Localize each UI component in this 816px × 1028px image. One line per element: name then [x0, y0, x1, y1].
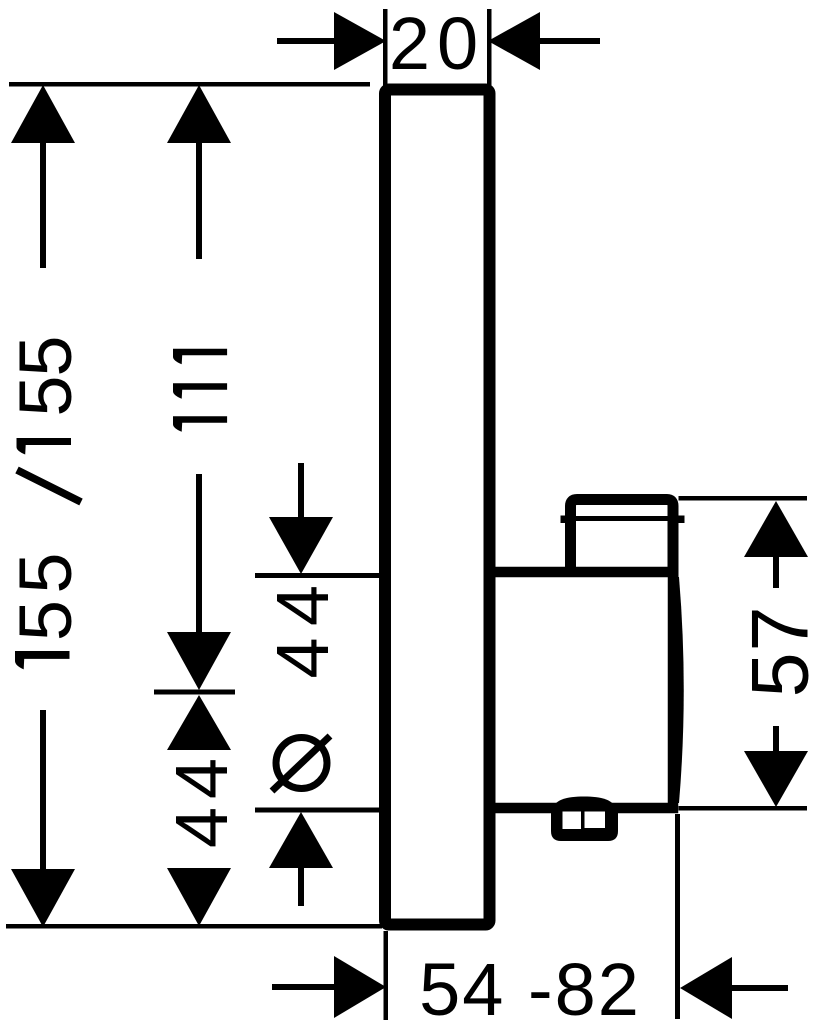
svg-text:7: 7: [736, 606, 816, 651]
extension line 57 top: [679, 496, 808, 501]
knob cap inner line: [576, 516, 668, 521]
tick knob bottom: [255, 808, 381, 813]
dim 20 left arrowhead: [334, 12, 386, 70]
knob body: [492, 572, 673, 808]
clip window right: [585, 812, 606, 829]
dim 44 lower bottom arrowhead: [167, 868, 231, 926]
dim 111 lower tail: [196, 474, 202, 638]
dim 155/155 text: digit 1 (custom): [15, 651, 70, 669]
bottom extension line (overall height datum): [6, 924, 382, 929]
dim d44 upper arrowhead: [269, 517, 333, 574]
knob cap right nub: [678, 516, 685, 524]
dim 54-82 right arrowhead: [680, 957, 732, 1019]
diameter symbol circle: [276, 738, 327, 789]
svg-text:5: 5: [4, 335, 87, 376]
tick at handle axis: [154, 690, 235, 695]
dim 155/155 bottom arrowhead: [11, 869, 75, 927]
svg-text:54 -82: 54 -82: [419, 948, 641, 1028]
dim 20 right tail: [537, 38, 600, 44]
knob cap: [571, 500, 674, 579]
extension line 20 left: [383, 9, 388, 88]
svg-text:5: 5: [4, 600, 87, 641]
dim 54-82 left tail: [272, 984, 334, 990]
extension line 54-82 right: [675, 814, 680, 1019]
svg-text:4: 4: [261, 637, 344, 678]
svg-text:4: 4: [160, 758, 243, 799]
top extension line (overall height datum): [9, 82, 370, 87]
dim 57 bottom tail: [773, 726, 779, 758]
knob rim bulge: [668, 577, 684, 803]
dim 57 top arrowhead: [744, 501, 808, 557]
knob bottom clip: [551, 797, 618, 842]
svg-text:5: 5: [4, 552, 87, 593]
tick knob top: [255, 573, 381, 578]
dim 155/155 text: digit 1 (custom): [17, 438, 72, 455]
svg-text:4: 4: [261, 585, 344, 626]
dim 155/155 bottom tail: [40, 710, 46, 872]
dim 111 top tail: [196, 142, 202, 259]
dim d44 lower arrowhead: [269, 812, 333, 868]
svg-text:5: 5: [4, 375, 87, 416]
wall plate: [385, 90, 490, 925]
dim 44 lower upper arrowhead: [167, 695, 231, 750]
knob cap left nub: [561, 516, 567, 524]
dim 57 bottom arrowhead: [744, 751, 808, 807]
dim 155/155 top tail: [40, 142, 46, 268]
dim 111 text: digit 1 (custom): [173, 416, 227, 432]
extension line 54-82 left: [384, 931, 389, 1020]
clip window left: [563, 812, 582, 830]
extension line 57 bottom: [679, 806, 808, 811]
svg-text:20: 20: [389, 2, 485, 85]
svg-text:4: 4: [160, 807, 243, 848]
dim d44 upper tail: [298, 463, 304, 523]
dim 20 left tail: [277, 38, 337, 44]
dim 155/155 top arrowhead: [11, 85, 75, 143]
dim 111 top arrowhead: [167, 85, 231, 143]
dim 54-82 right tail: [729, 985, 788, 991]
dim 57 top tail: [773, 556, 779, 588]
dim 155/155 text: slash (custom): [17, 470, 81, 502]
svg-text:5: 5: [736, 652, 816, 697]
dim 111 lower arrowhead: [167, 632, 231, 690]
extension line 20 right: [487, 9, 492, 88]
dim 20 right arrowhead: [488, 12, 540, 70]
dim 111 text: digit 1 (custom): [173, 383, 227, 399]
dim d44 lower tail: [298, 866, 304, 906]
diameter symbol slash: [272, 736, 330, 791]
dim 111 text: digit 1 (custom): [173, 349, 227, 365]
dim 54-82 left arrowhead: [334, 956, 386, 1018]
